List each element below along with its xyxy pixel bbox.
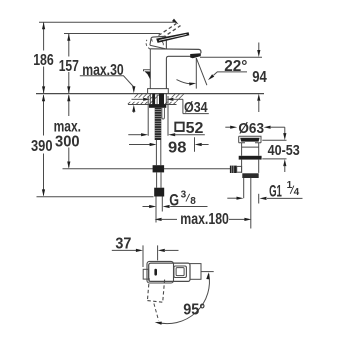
label G1 1/4 with underline and arrow — [260, 180, 303, 200]
label 22 degrees with leader arrow — [208, 58, 247, 80]
pop-up rod knob on drain (dark knurled) — [230, 166, 242, 173]
svg-text:37: 37 — [115, 235, 131, 252]
pop-up rod horizontal line to drain (max.300 reference) — [63, 168, 231, 170]
pop-up rod guide hook — [162, 108, 165, 119]
22 degree arc arrow — [177, 80, 197, 86]
svg-text:157: 157 — [59, 58, 79, 75]
svg-text:390: 390 — [31, 138, 53, 155]
svg-text:300: 300 — [55, 134, 80, 151]
water stream 22 degree slanted line — [196, 58, 207, 85]
svg-text:95°: 95° — [183, 301, 205, 318]
dimension 157 extension line (spout/body top) — [64, 33, 160, 35]
svg-text:98: 98 — [168, 140, 187, 157]
dimension 94 vertical with outside arrows — [257, 43, 260, 113]
square 52 arrows — [128, 133, 205, 136]
G1 1/4 left arrow with extension tick — [227, 194, 258, 204]
G3/8 hose end fitting (dark) — [154, 188, 164, 197]
40-53 lower extension line and arrow — [262, 159, 286, 172]
drain tailpipe — [244, 178, 251, 229]
raised handle position dashed lines — [159, 24, 181, 38]
drain coupling hatched band (dark) — [242, 173, 258, 178]
G3/8 diameter arrows — [143, 205, 170, 208]
faucet body top and spout top edge — [150, 49, 201, 54]
dimension max.180 line with arrows — [155, 218, 252, 221]
svg-text:G1: G1 — [269, 182, 282, 200]
top view aerator inner square — [176, 268, 184, 276]
deck cross-section hatching right of shank — [165, 94, 184, 104]
dimension 98 left arrow at hose — [129, 143, 157, 146]
svg-text:Ø63: Ø63 — [238, 120, 264, 137]
handle lever blade (dark) — [156, 32, 189, 43]
aerator outlet (dark) — [190, 53, 201, 58]
drain lower body — [242, 160, 259, 173]
faucet spout underside and body right edge — [166, 56, 190, 88]
top view spout extension right — [190, 264, 201, 280]
label max.30 with leader and arrow to deck top — [80, 62, 136, 94]
svg-text:94: 94 — [252, 69, 267, 86]
dimension 98 right arrow with tick — [195, 137, 209, 152]
mounting hole edge lines — [150, 94, 166, 105]
drain flange outline — [239, 136, 261, 143]
handle knuckle outline — [150, 36, 167, 48]
dimension 94 extension line from aerator — [200, 56, 262, 58]
drain upper body — [242, 143, 259, 156]
faucet body left edge — [149, 49, 151, 89]
label square 52 — [175, 120, 203, 137]
dimension 186 extension line (raised lever top) — [39, 19, 179, 25]
drain flange base edges — [239, 142, 261, 144]
top view aerator outer square — [174, 266, 187, 278]
pop-up rod knob at rear of body — [144, 70, 151, 80]
mounting washer and nut (dark) — [149, 104, 166, 107]
dimension 157 vertical with arrows — [67, 34, 70, 94]
37 extension lines — [143, 245, 158, 267]
svg-text:max.180: max.180 — [180, 211, 229, 228]
drain locknut (dark) — [239, 156, 262, 160]
svg-text:8: 8 — [190, 196, 196, 207]
swivel position dashed outline — [147, 278, 164, 320]
top view handle outer contour — [147, 261, 174, 283]
hose end extension lines — [156, 197, 162, 223]
faucet base flange — [148, 89, 169, 94]
top view body and spout outline — [149, 263, 190, 281]
svg-text:Ø34: Ø34 — [184, 99, 208, 116]
handle pivot dashed arc — [146, 40, 150, 50]
dimension 37 line and arrows — [112, 249, 179, 252]
svg-text:3: 3 — [181, 190, 187, 201]
square 52 extension lines from base flange — [148, 96, 168, 136]
supply hose middle segment — [156, 140, 160, 165]
label G3/8 with underline — [169, 190, 207, 210]
svg-text:52: 52 — [186, 120, 204, 137]
pop-up rod junction block (dark) — [153, 165, 165, 172]
dimension max.300 vertical with arrows — [67, 94, 70, 168]
mounting deck top surface line — [36, 93, 264, 95]
dimension 390 vertical with arrows — [42, 94, 45, 196]
svg-text:4: 4 — [294, 187, 300, 198]
drain flange dark band — [240, 138, 259, 142]
diameter 34 label leader elbow and underline — [183, 99, 209, 113]
supply hose lower segment — [157, 172, 161, 187]
svg-text:40-53: 40-53 — [268, 142, 300, 159]
diameter 34 arrows at mounting hole — [132, 98, 183, 101]
dimension 186 vertical with arrows — [42, 22, 45, 93]
deck cross-section hatching left of shank — [128, 94, 160, 104]
water stream vertical line — [195, 58, 197, 89]
top view handle mark (dark) — [154, 269, 157, 276]
95 degree swivel arc with arrows — [155, 272, 210, 325]
braided supply hose upper segment (dark) — [155, 108, 162, 140]
390 bottom extension line (hose end level) — [37, 196, 154, 198]
spout reference extension line right — [201, 271, 214, 273]
40-53 upper extension line and arrow — [262, 127, 286, 140]
max.30 lower arrow to deck underside — [132, 105, 135, 113]
top view rear knob — [143, 269, 148, 279]
shank columns through deck (dark) — [152, 94, 164, 105]
svg-text:186: 186 — [33, 52, 54, 69]
mounting deck underside line — [128, 104, 177, 106]
diameter 63 arrows — [225, 126, 284, 129]
